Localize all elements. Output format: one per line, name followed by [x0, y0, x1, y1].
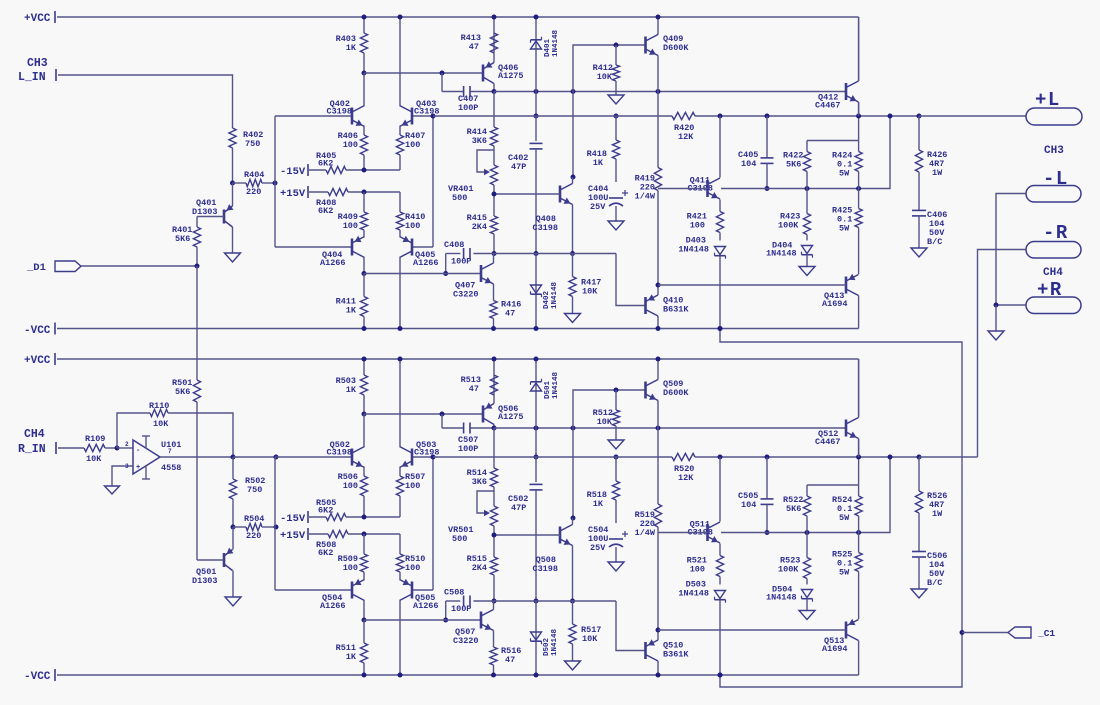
- resistor R407 100: [396, 127, 425, 171]
- resistor R519 220 1/4W: [635, 428, 662, 630]
- diode D401 1N4148: [531, 17, 561, 92]
- node D501 rail: [534, 357, 539, 362]
- wire Q507 collector: [493, 601, 495, 610]
- diode D502 1N4148: [531, 601, 560, 675]
- connector _D1: [26, 261, 197, 274]
- node R503 top: [362, 357, 367, 362]
- svg-text:1N4148: 1N4148: [551, 628, 559, 656]
- wire comp row: [446, 253, 616, 255]
- svg-text:-R: -R: [1043, 222, 1069, 244]
- svg-text:1K: 1K: [346, 43, 357, 53]
- node C507 tap: [440, 412, 445, 417]
- svg-text:C3220: C3220: [453, 290, 479, 300]
- wire Q502 base row: [275, 456, 352, 458]
- svg-text:1/4W: 1/4W: [635, 528, 656, 538]
- wire feedback vertical: [432, 457, 434, 590]
- svg-text:1K: 1K: [346, 306, 357, 316]
- svg-text:C3198: C3198: [532, 564, 558, 574]
- svg-text:A1694: A1694: [822, 644, 848, 654]
- svg-text:100K: 100K: [778, 221, 799, 231]
- node R518 top: [614, 455, 619, 460]
- wire Q510 base net: [616, 601, 646, 651]
- svg-text:500: 500: [452, 193, 467, 203]
- diode D501 1N4148: [531, 359, 561, 428]
- node +15V junction: [362, 190, 367, 195]
- node bias tap: [571, 516, 576, 521]
- svg-text:500: 500: [452, 534, 467, 544]
- svg-text:CH4: CH4: [1043, 267, 1063, 279]
- node Q408 emitter junction: [570, 251, 575, 256]
- node R416 rail: [491, 326, 496, 331]
- node D402 rail: [534, 326, 539, 331]
- node C405 top: [765, 114, 770, 119]
- resistor R502 750: [229, 457, 265, 527]
- resistor R405 6K2: [316, 151, 400, 174]
- wire +R to ground: [996, 304, 1026, 306]
- svg-text:R109: R109: [85, 434, 105, 444]
- svg-text:100P: 100P: [458, 103, 478, 113]
- node C505 top: [765, 455, 770, 460]
- node Q512 emitter rail: [856, 455, 861, 460]
- wire Q504 collector: [363, 601, 365, 621]
- wire clamp column: [535, 428, 537, 457]
- transistor Q501: [192, 548, 234, 586]
- transistor Q503: [400, 440, 440, 468]
- svg-text:1W: 1W: [932, 168, 943, 178]
- wire Q512 collector: [858, 359, 860, 418]
- svg-text:5K6: 5K6: [786, 160, 801, 170]
- node -VCC loop bottom: [718, 673, 723, 678]
- svg-text:1/4W: 1/4W: [635, 192, 656, 202]
- potentiometer VR401 500: [448, 150, 498, 203]
- svg-text:1N4148: 1N4148: [552, 29, 560, 57]
- svg-text:+VCC: +VCC: [24, 13, 51, 25]
- resistor R522 5K6: [783, 485, 811, 533]
- wire Q412 emitter: [858, 102, 860, 116]
- wire drive row: [494, 427, 846, 429]
- transistor Q510: [646, 639, 690, 661]
- wire Q404 base row: [275, 246, 352, 248]
- wire Q508 base: [494, 534, 560, 536]
- svg-text:-L: -L: [1043, 168, 1069, 190]
- resistor R425 0.1 5W: [832, 189, 862, 275]
- svg-text:100K: 100K: [778, 565, 799, 575]
- svg-text:5W: 5W: [839, 169, 850, 179]
- net +VCC bottom: [24, 353, 859, 367]
- node feedback junction: [431, 455, 436, 460]
- resistor R109 10K: [84, 434, 117, 464]
- wire input-base net vertical: [274, 457, 276, 590]
- node output sense: [888, 114, 893, 119]
- node R424 junction: [856, 186, 861, 191]
- node R413 rail: [492, 15, 497, 20]
- resistor R402 750: [229, 128, 264, 183]
- transistor Q402: [326, 99, 364, 127]
- svg-text:47: 47: [469, 42, 479, 52]
- svg-text:R404: R404: [244, 170, 264, 180]
- wire -R down: [978, 250, 1027, 458]
- svg-text:47P: 47P: [511, 503, 526, 513]
- svg-text:D600K: D600K: [663, 43, 689, 53]
- ground output common: [988, 331, 1004, 340]
- transistor Q511: [687, 520, 720, 544]
- svg-text:104: 104: [741, 159, 756, 169]
- node D502 rail: [534, 673, 539, 678]
- svg-text:3K6: 3K6: [472, 477, 487, 487]
- transistor Q505: [400, 579, 439, 611]
- wire Q509 collector: [657, 359, 659, 380]
- resistor R415 2K4: [467, 185, 498, 254]
- wire bias column: [572, 92, 574, 178]
- transistor Q513: [822, 619, 859, 654]
- svg-text:100: 100: [405, 481, 420, 491]
- svg-text:6K2: 6K2: [318, 506, 333, 516]
- wire U101 output to input row: [233, 456, 276, 458]
- svg-text:C408: C408: [444, 240, 464, 250]
- resistor R403 1K: [336, 17, 368, 73]
- wire Q513 collector to -VCC: [858, 641, 860, 676]
- svg-text:100: 100: [405, 563, 420, 573]
- node Q508 emitter junction: [570, 599, 575, 604]
- wire Q408 emitter: [572, 205, 574, 254]
- svg-text:1K: 1K: [593, 499, 604, 509]
- resistor R526 4R7 1W: [915, 457, 947, 552]
- wire Q511 base: [658, 532, 708, 534]
- svg-text:C4467: C4467: [815, 437, 841, 447]
- svg-text:5W: 5W: [839, 224, 850, 234]
- transistor Q512: [815, 418, 859, 448]
- capacitor C505 104: [738, 457, 774, 533]
- svg-text:25V: 25V: [590, 202, 606, 212]
- resistor R515 2K4: [467, 526, 498, 601]
- wire Q501 base: [197, 559, 224, 561]
- node -VCC loop top: [718, 326, 723, 331]
- node +15V junction: [362, 532, 367, 537]
- svg-text:1N4148: 1N4148: [678, 589, 709, 599]
- transistor Q509: [646, 379, 690, 401]
- wire Q506 collector: [493, 425, 495, 429]
- node R404 right: [273, 181, 278, 186]
- capacitor C404 100U 25V: [588, 184, 628, 221]
- svg-text:1N4148: 1N4148: [766, 593, 797, 603]
- connector +L: [1026, 89, 1082, 125]
- diode D504 1N4148: [766, 585, 813, 611]
- wire Q412 collector: [858, 17, 860, 81]
- wire Q501 collector to ground: [232, 571, 234, 598]
- svg-text:100: 100: [343, 563, 358, 573]
- node R403 top: [362, 15, 367, 20]
- wire output row: [695, 456, 919, 458]
- connector +R: [1026, 279, 1081, 314]
- wire clamp column: [535, 92, 537, 117]
- resistor R411 1K: [336, 274, 368, 329]
- ground C404: [608, 221, 624, 230]
- resistor R419 220 1/4W: [635, 92, 662, 286]
- svg-text:A1275: A1275: [498, 412, 524, 422]
- resistor R413 47: [461, 17, 498, 63]
- net CH3 output: [1044, 145, 1064, 157]
- node R402 bottom: [230, 181, 235, 186]
- wire Q508 collector: [572, 518, 574, 525]
- wire Q511 collector: [719, 457, 721, 522]
- node Q505 collector rail: [398, 673, 403, 678]
- wire +VCC to Q412 collector: [858, 17, 860, 81]
- resistor R401 5K6: [172, 217, 201, 267]
- svg-text:-15V: -15V: [280, 166, 306, 178]
- wire bootstrap row: [433, 115, 672, 117]
- ground R412: [608, 95, 624, 104]
- wire Q504 base row: [275, 589, 352, 591]
- wire R522 jog: [807, 484, 859, 486]
- resistor R408 6K2: [316, 188, 400, 216]
- node Q408 base tap: [492, 192, 497, 197]
- svg-text:10K: 10K: [582, 634, 598, 644]
- wire +L output rail: [919, 115, 1026, 117]
- wire VAS column: [493, 428, 495, 468]
- wire Q409 emitter: [657, 56, 659, 92]
- svg-text:C3198: C3198: [532, 223, 558, 233]
- svg-text:6K2: 6K2: [318, 548, 333, 558]
- wire ground stem: [995, 305, 997, 331]
- svg-text:5K6: 5K6: [175, 234, 190, 244]
- wire bias column: [572, 428, 574, 518]
- wire Q501 emitter: [232, 527, 234, 550]
- resistor R410 100: [396, 192, 425, 237]
- node C502 top: [534, 455, 539, 460]
- resistor R516 47: [490, 631, 522, 676]
- node Q406 collector: [492, 89, 497, 94]
- wire input-base net vertical: [274, 116, 276, 247]
- wire Q409 base net: [573, 45, 646, 92]
- wire C408 left leg: [445, 254, 447, 274]
- transistor Q506: [483, 402, 524, 424]
- node Q504 collector junction: [362, 618, 367, 623]
- wire Q508 emitter: [572, 546, 574, 602]
- wire Q404 collector: [363, 258, 365, 274]
- ground R517: [565, 661, 581, 670]
- wire feedback up: [117, 413, 150, 448]
- svg-text:D501: D501: [544, 380, 552, 399]
- node Q411 collector tap: [718, 114, 723, 119]
- svg-text:47: 47: [469, 384, 479, 394]
- svg-text:100: 100: [405, 221, 420, 231]
- transistor Q408: [532, 184, 572, 234]
- svg-text:CH3: CH3: [27, 57, 48, 70]
- svg-text:-VCC: -VCC: [24, 671, 51, 683]
- wire Q502 collector: [363, 414, 365, 447]
- wire Q510 collector: [657, 661, 659, 675]
- wire output row: [695, 115, 919, 117]
- node D401 rail: [534, 15, 539, 20]
- svg-text:104: 104: [741, 500, 756, 510]
- svg-text:D401: D401: [544, 38, 552, 57]
- svg-text:10K: 10K: [582, 287, 598, 297]
- svg-text:10K: 10K: [597, 417, 613, 427]
- node C408 leg junction: [443, 271, 448, 276]
- wire Q409 collector: [657, 17, 659, 35]
- wire Q505 base row: [412, 589, 433, 591]
- svg-text:1N4148: 1N4148: [766, 249, 797, 259]
- transistor Q409: [646, 34, 690, 56]
- resistor R110 10K: [149, 401, 233, 457]
- transistor Q507: [453, 610, 494, 647]
- svg-text:A1266: A1266: [320, 258, 346, 268]
- capacitor C407 100P: [442, 73, 494, 113]
- connector -R: [1026, 222, 1081, 258]
- net -VCC top: [24, 323, 859, 338]
- ground R512: [608, 440, 624, 449]
- svg-text:6K2: 6K2: [318, 159, 333, 169]
- diode D404 1N4148: [766, 241, 813, 267]
- resistor R525 0.1 5W: [832, 533, 862, 620]
- node Q510 collector rail: [656, 673, 661, 678]
- transistor Q407: [453, 263, 494, 300]
- node Q405 collector rail: [398, 326, 403, 331]
- node Q409 base tap: [571, 89, 576, 94]
- svg-text:D600K: D600K: [663, 388, 689, 398]
- svg-text:100P: 100P: [458, 444, 478, 454]
- net CH4 R_IN: [18, 428, 84, 456]
- node Q503 collector rail: [398, 357, 403, 362]
- svg-text:6K2: 6K2: [318, 206, 333, 216]
- resistor R512 10K: [593, 390, 620, 440]
- svg-text:A1266: A1266: [320, 601, 346, 611]
- wire Q411 collector: [719, 116, 721, 178]
- svg-text:C3198: C3198: [326, 448, 352, 458]
- svg-text:5K6: 5K6: [786, 504, 801, 514]
- svg-text:220: 220: [246, 187, 261, 197]
- svg-text:5W: 5W: [839, 568, 850, 578]
- svg-text:2K4: 2K4: [472, 563, 487, 573]
- svg-text:100: 100: [343, 140, 358, 150]
- resistor R520 12K: [672, 453, 695, 483]
- node Q410 collector rail: [656, 326, 661, 331]
- wire feedback vertical: [432, 116, 434, 247]
- net -15V: [280, 511, 326, 525]
- resistor R503 1K: [336, 359, 368, 414]
- wire Q410 emitter: [657, 285, 659, 295]
- transistor Q403: [400, 99, 440, 127]
- svg-text:100: 100: [405, 140, 420, 150]
- svg-text:R504: R504: [244, 514, 264, 524]
- node Q506 collector: [492, 426, 497, 431]
- node Q509 collector rail: [656, 357, 661, 362]
- node C502 bottom: [534, 599, 539, 604]
- wire R422 jog: [807, 140, 859, 142]
- resistor R510 100: [396, 534, 425, 580]
- node R403 bottom: [362, 71, 367, 76]
- node R411 bottom rail: [362, 326, 367, 331]
- svg-text:CH4: CH4: [24, 428, 45, 441]
- wire +VCC to Q512 collector: [858, 359, 860, 416]
- node R515 bottom: [492, 599, 497, 604]
- ground Q501: [225, 597, 241, 606]
- svg-text:5K6: 5K6: [175, 387, 190, 397]
- capacitor C402 47P: [508, 116, 543, 254]
- svg-text:C508: C508: [444, 588, 464, 598]
- node C402 top: [534, 114, 539, 119]
- node R512 tap: [614, 388, 619, 393]
- svg-text:D1303: D1303: [192, 576, 218, 586]
- svg-text:A1266: A1266: [413, 601, 439, 611]
- svg-text:+15V: +15V: [280, 188, 306, 200]
- node R502 bottom: [231, 525, 236, 530]
- wire Q410 base net: [616, 254, 646, 306]
- node bias tap: [571, 175, 576, 180]
- resistor R524 0.1 5W: [832, 439, 862, 533]
- node -15V junction: [362, 515, 367, 520]
- capacitor C507 100P: [442, 414, 494, 454]
- resistor R507 100: [396, 468, 425, 518]
- op-amp U101 4558: [112, 436, 233, 486]
- wire Q408 base: [494, 193, 560, 195]
- transistor Q413: [822, 274, 859, 309]
- capacitor C504 100U 25V: [588, 525, 628, 562]
- wire Q401 emitter: [232, 183, 234, 206]
- node driver junction: [656, 426, 661, 431]
- resistor R422 5K6: [783, 141, 811, 189]
- svg-text:D1303: D1303: [192, 207, 218, 217]
- net CH3 L_IN: [18, 57, 233, 128]
- wire Q403 base to feedback node: [412, 115, 433, 117]
- svg-text:12K: 12K: [678, 473, 694, 483]
- capacitor C408 100P: [444, 240, 471, 267]
- svg-text:1K: 1K: [346, 385, 357, 395]
- svg-text:C3220: C3220: [453, 636, 479, 646]
- node R503 bottom: [362, 412, 367, 417]
- node R504 right: [274, 525, 279, 530]
- svg-text:L_IN: L_IN: [18, 71, 46, 84]
- ground D404: [799, 267, 815, 276]
- node C402 bottom: [534, 251, 539, 256]
- wire inverting input: [117, 447, 133, 449]
- resistor R511 1K: [336, 620, 368, 675]
- svg-text:R_IN: R_IN: [18, 443, 46, 456]
- node C407 tap: [440, 71, 445, 76]
- svg-text:C3198: C3198: [414, 107, 440, 117]
- svg-text:C4467: C4467: [815, 101, 841, 111]
- svg-text:10K: 10K: [597, 72, 613, 82]
- svg-text:47: 47: [505, 655, 515, 665]
- svg-text:-15V: -15V: [280, 513, 306, 525]
- wire Q405 base row: [412, 246, 433, 248]
- node C405 bottom: [765, 186, 770, 191]
- transistor Q504: [320, 579, 365, 611]
- svg-text:_D1: _D1: [26, 262, 46, 274]
- node R418 top: [614, 114, 619, 119]
- svg-text:+VCC: +VCC: [24, 355, 51, 367]
- svg-text:+: +: [136, 464, 140, 472]
- node output sense: [888, 455, 893, 460]
- node R415 bottom: [492, 251, 497, 256]
- svg-text:100: 100: [343, 481, 358, 491]
- wire Q506 base row: [364, 413, 484, 415]
- node U101 output: [231, 455, 236, 460]
- node R513 rail: [492, 357, 497, 362]
- resistor R517 10K: [569, 601, 602, 661]
- svg-text:_C1: _C1: [1037, 628, 1055, 639]
- node input row corner: [274, 455, 279, 460]
- wire Q507 base row: [364, 619, 481, 621]
- svg-text:2: 2: [125, 441, 129, 448]
- resistor R421 100: [687, 200, 724, 241]
- wire bottom output rail to -R: [919, 456, 978, 458]
- resistor R521 100: [687, 544, 724, 585]
- node D501 bottom: [534, 426, 539, 431]
- wire -L to ground: [996, 194, 1026, 305]
- resistor R406 100: [338, 127, 368, 171]
- transistor Q508: [532, 525, 572, 575]
